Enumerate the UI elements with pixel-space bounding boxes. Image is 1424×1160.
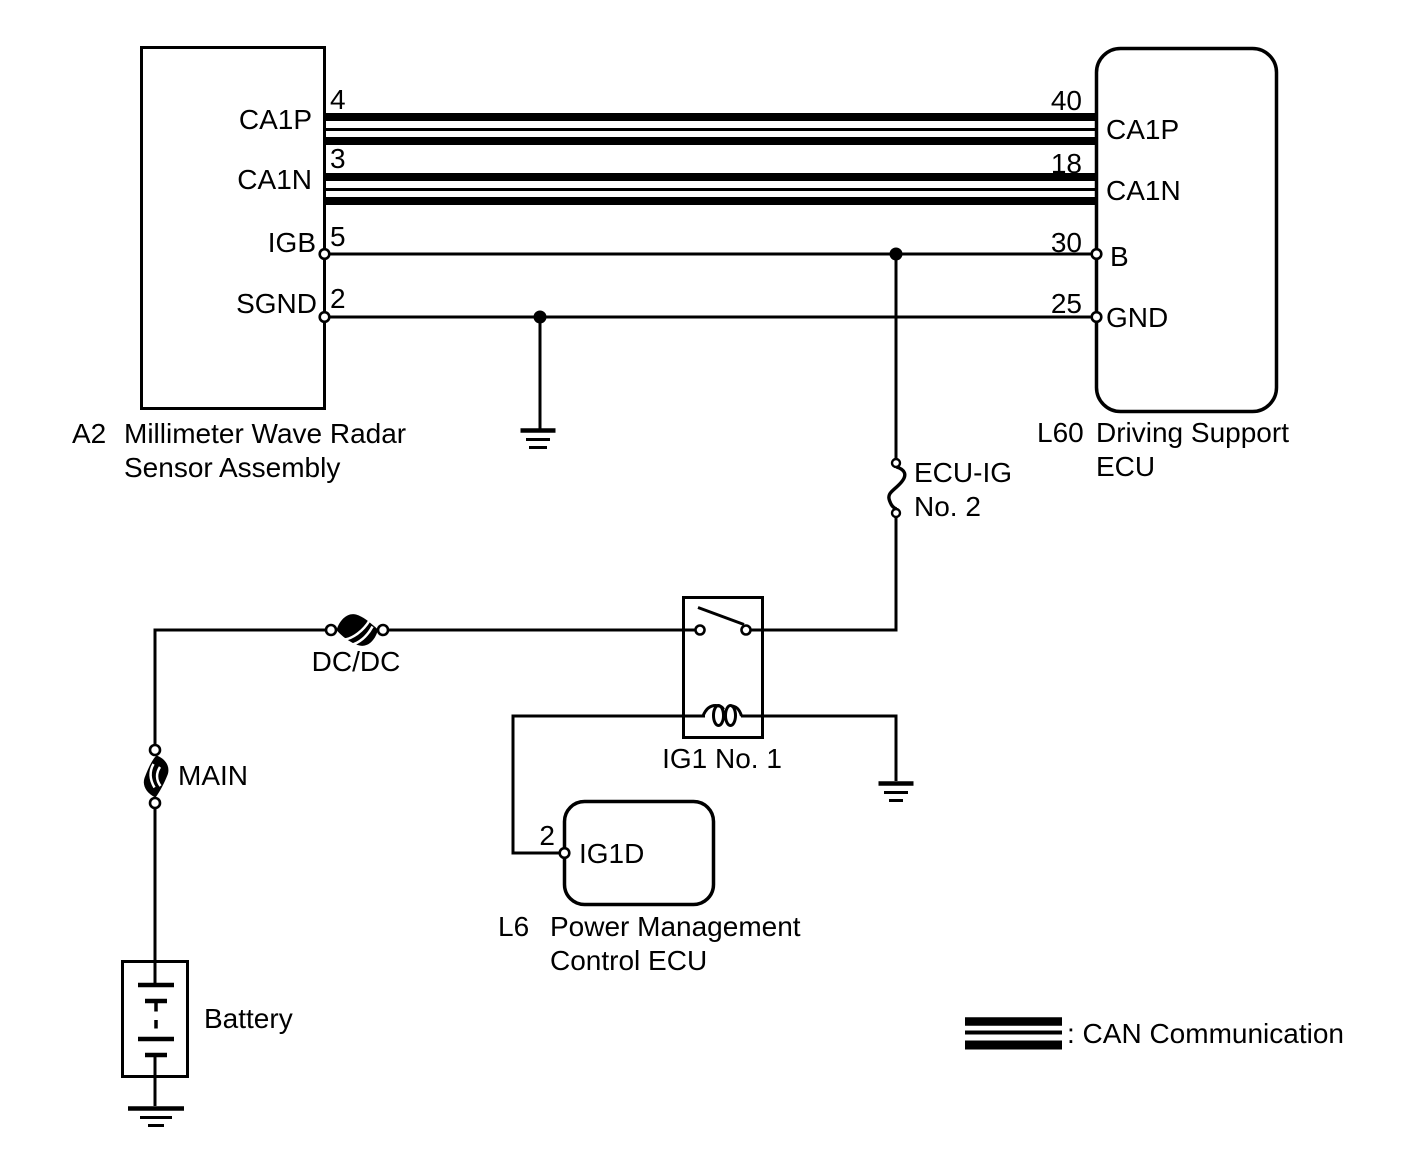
label fuse ECU-IG No. 2 bbox=[914, 457, 1012, 522]
svg-text:CA1P: CA1P bbox=[239, 104, 312, 135]
relay IG1 No. 1 box bbox=[684, 598, 763, 738]
fusible link MAIN bbox=[144, 745, 169, 808]
svg-text:CA1P: CA1P bbox=[1106, 114, 1179, 145]
relay switch contact left bbox=[696, 626, 705, 635]
svg-text:CA1N: CA1N bbox=[237, 164, 312, 195]
wire from corner down to MAIN fusible link bbox=[154, 629, 157, 746]
svg-text:MAIN: MAIN bbox=[178, 760, 248, 791]
svg-text:Control ECU: Control ECU bbox=[550, 945, 707, 976]
junction on SGND wire bbox=[534, 311, 547, 324]
junction on IGB wire bbox=[890, 248, 903, 261]
relay switch contact right bbox=[742, 626, 751, 635]
fuse ECU-IG No. 2 bbox=[889, 459, 905, 517]
pin circle L60 pin 30 B bbox=[1092, 249, 1102, 259]
svg-text:IGB: IGB bbox=[268, 227, 316, 258]
svg-text:5: 5 bbox=[330, 221, 346, 252]
label L6 Power Management Control ECU bbox=[498, 911, 801, 976]
connector A2 Millimeter Wave Radar Sensor Assembly bbox=[142, 48, 325, 409]
svg-text:Sensor Assembly: Sensor Assembly bbox=[124, 452, 340, 483]
svg-text:IG1 No. 1: IG1 No. 1 bbox=[662, 743, 782, 774]
svg-text:A2: A2 bbox=[72, 418, 106, 449]
wire from fuse ECU-IG down to relay switch bbox=[750, 517, 896, 631]
svg-text:IG1D: IG1D bbox=[579, 838, 644, 869]
relay switch blade bbox=[698, 608, 744, 625]
svg-text:40: 40 bbox=[1051, 85, 1082, 116]
svg-text:25: 25 bbox=[1051, 288, 1082, 319]
wire from DC/DC fuse to relay switch bbox=[387, 629, 696, 632]
label L60 Driving Support ECU bbox=[1037, 417, 1289, 482]
wire SGND (A2 pin 2) to GND (L60 pin 25) bbox=[326, 316, 1095, 319]
wire CAN bus CA1N (A2 pin 3 to L60 pin 18) bbox=[326, 177, 1095, 201]
battery bbox=[123, 962, 188, 1077]
wire from L6 up to relay coil bbox=[513, 716, 705, 853]
wire from SGND junction down to ground bbox=[539, 317, 542, 430]
wire from corner to DC/DC fuse bbox=[155, 629, 327, 632]
wire IGB (A2 pin 5) to B (L60 pin 30) bbox=[326, 253, 1095, 256]
wire from relay coil to ground bbox=[741, 716, 896, 781]
legend CAN communication line sample bbox=[965, 1022, 1062, 1046]
wire from MAIN fuse down to battery bbox=[154, 808, 157, 985]
ground (battery ground) bbox=[128, 1109, 184, 1126]
svg-text:18: 18 bbox=[1051, 148, 1082, 179]
svg-text:Battery: Battery bbox=[204, 1003, 293, 1034]
svg-text:: CAN Communication: : CAN Communication bbox=[1067, 1018, 1344, 1049]
svg-text:ECU: ECU bbox=[1096, 451, 1155, 482]
svg-text:4: 4 bbox=[330, 84, 346, 115]
svg-text:DC/DC: DC/DC bbox=[312, 646, 401, 677]
svg-text:3: 3 bbox=[330, 143, 346, 174]
svg-text:B: B bbox=[1110, 241, 1129, 272]
svg-text:L60: L60 bbox=[1037, 417, 1084, 448]
svg-text:CA1N: CA1N bbox=[1106, 175, 1181, 206]
wire from battery to ground bbox=[154, 1055, 157, 1106]
wire from IGB junction down to fuse ECU-IG No.2 bbox=[895, 254, 898, 460]
svg-text:SGND: SGND bbox=[236, 288, 317, 319]
svg-text:GND: GND bbox=[1106, 302, 1168, 333]
svg-text:2: 2 bbox=[539, 820, 555, 851]
connector L6 Power Management Control ECU bbox=[565, 802, 714, 905]
svg-text:2: 2 bbox=[330, 283, 346, 314]
svg-text:Power Management: Power Management bbox=[550, 911, 801, 942]
svg-text:No. 2: No. 2 bbox=[914, 491, 981, 522]
connector L60 Driving Support ECU bbox=[1097, 49, 1277, 412]
svg-text:L6: L6 bbox=[498, 911, 529, 942]
label A2 Millimeter Wave Radar Sensor Assembly bbox=[72, 418, 406, 483]
ground (relay coil ground) bbox=[879, 784, 914, 801]
relay coil bbox=[703, 706, 742, 726]
pin circle A2 pin 5 IGB bbox=[320, 249, 330, 259]
pin circle L6 pin 2 IG1D bbox=[560, 848, 570, 858]
svg-text:ECU-IG: ECU-IG bbox=[914, 457, 1012, 488]
svg-text:Millimeter Wave Radar: Millimeter Wave Radar bbox=[124, 418, 406, 449]
pin circle L60 pin 25 GND bbox=[1092, 312, 1102, 322]
pin circle A2 pin 2 SGND bbox=[320, 312, 330, 322]
ground (signal ground below SGND wire) bbox=[521, 431, 556, 448]
fuse DC/DC (fusible link) bbox=[326, 614, 388, 646]
wire CAN bus CA1P (A2 pin 4 to L60 pin 40) bbox=[326, 117, 1095, 141]
svg-text:Driving Support: Driving Support bbox=[1096, 417, 1289, 448]
